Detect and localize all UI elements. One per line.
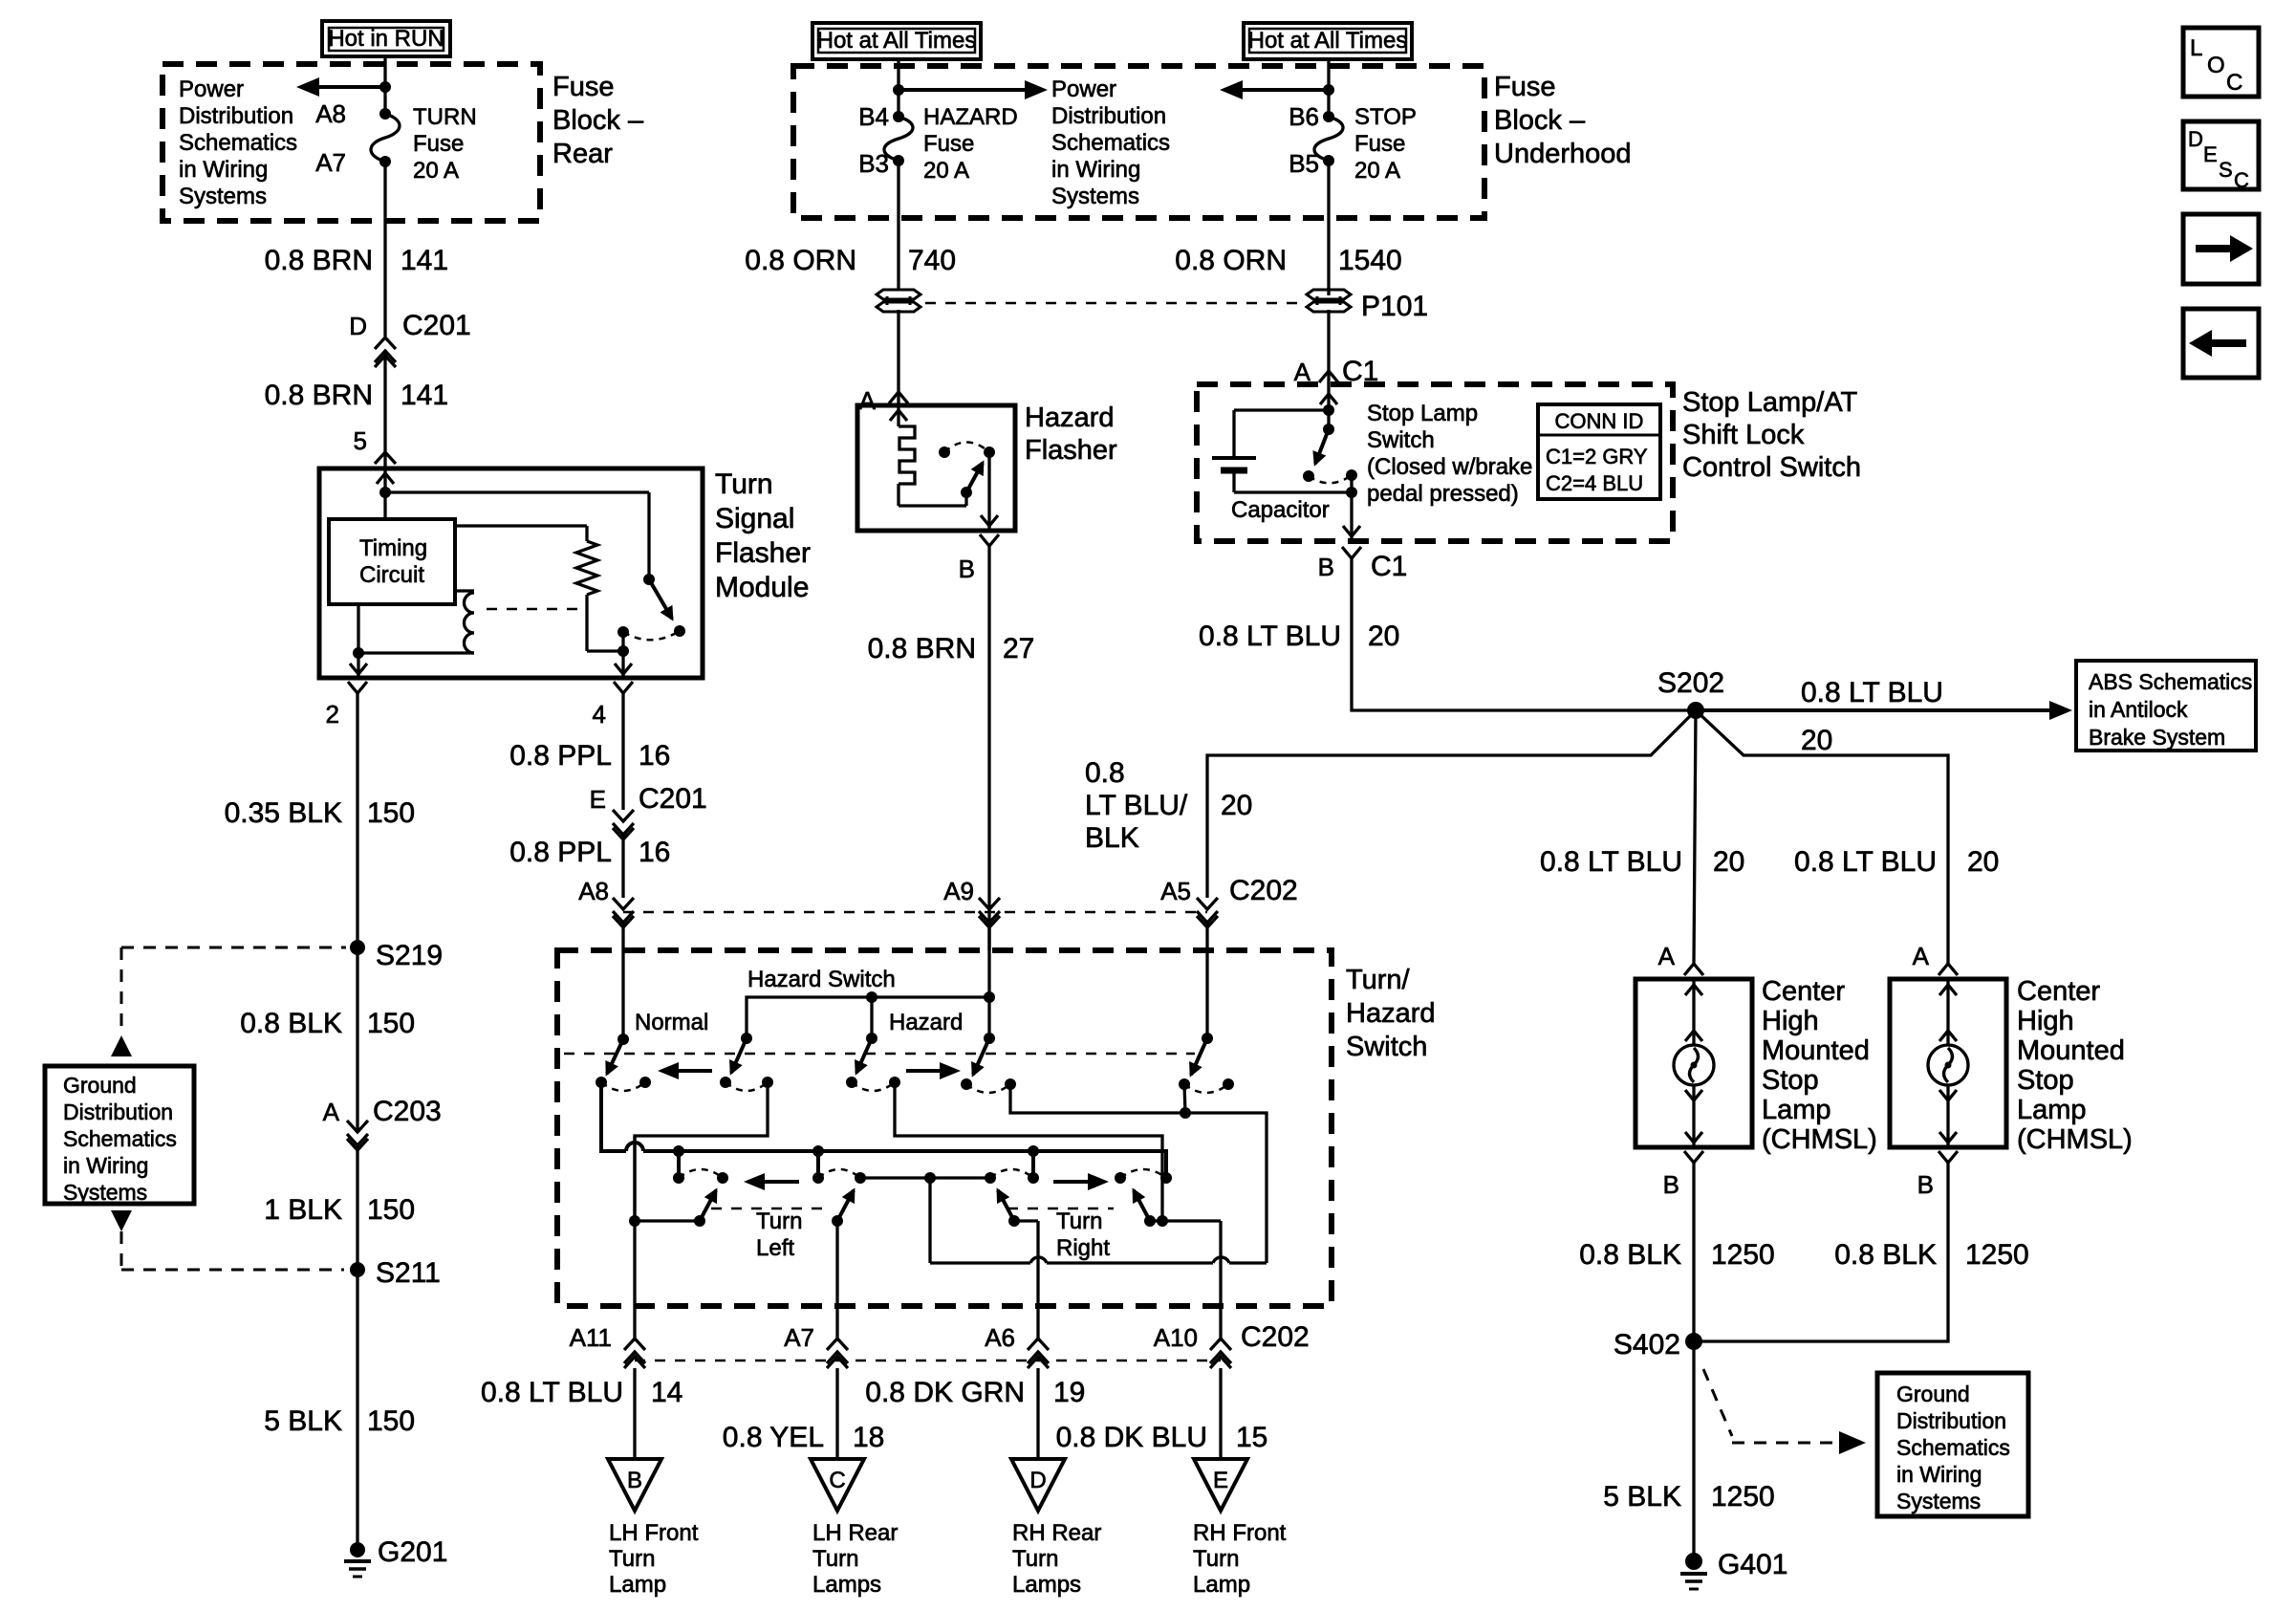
pin B terminal chevron (stop lamp switch) xyxy=(1342,547,1361,558)
svg-text:Capacitor: Capacitor xyxy=(1231,497,1330,523)
svg-text:20 A: 20 A xyxy=(413,158,459,184)
label 0.8 BRN 141 xyxy=(265,245,448,276)
label 0.8 BRN 141 xyxy=(265,380,448,411)
lower switch 1 (turn left) xyxy=(673,1169,728,1227)
svg-text:E: E xyxy=(590,785,606,814)
resistor R internal xyxy=(455,526,623,651)
svg-text:1 BLK: 1 BLK xyxy=(264,1194,342,1226)
svg-text:E: E xyxy=(2203,142,2218,166)
wire 0.8 BRN 141 from fuse to C201 xyxy=(383,162,386,337)
off-page triangle B xyxy=(608,1459,661,1511)
svg-text:B3: B3 xyxy=(858,149,889,178)
node on cross feed xyxy=(1180,1107,1191,1119)
svg-text:in Wiring: in Wiring xyxy=(1896,1462,1982,1487)
pin B terminal chevron right chmsl xyxy=(1939,1151,1958,1163)
svg-text:BLK: BLK xyxy=(1085,822,1139,854)
svg-text:LH Rear: LH Rear xyxy=(812,1520,898,1546)
svg-text:Stop: Stop xyxy=(1762,1065,1819,1096)
svg-text:Stop Lamp: Stop Lamp xyxy=(1367,401,1478,426)
wire lower sw4 pivot to A10 exit xyxy=(1150,1215,1221,1227)
label Turn Left xyxy=(756,1208,802,1261)
upper switch 5 xyxy=(1179,1033,1234,1093)
svg-text:0.8 BLK: 0.8 BLK xyxy=(1579,1239,1681,1271)
wire S202 down to left CHMSL xyxy=(1694,710,1696,964)
svg-text:Distribution: Distribution xyxy=(179,103,293,129)
svg-text:Mounted: Mounted xyxy=(2017,1035,2125,1066)
wire 5 BLK 1250 S402 to G401 xyxy=(1692,1341,1695,1561)
label Fuse Block - Rear xyxy=(552,72,644,169)
label 0.8 DK GRN 19 xyxy=(865,1377,1085,1408)
svg-text:TURN: TURN xyxy=(413,104,477,130)
lamp CHMSL right box xyxy=(1890,979,2006,1147)
svg-text:Schematics: Schematics xyxy=(1896,1435,2010,1460)
svg-text:A11: A11 xyxy=(570,1323,612,1352)
off-page triangle C xyxy=(811,1459,864,1511)
wire 0.8 LT BLU 14 to LH front turn lamp xyxy=(633,1368,636,1459)
svg-text:20: 20 xyxy=(1967,846,1999,878)
arrow right (upper bank) xyxy=(906,1062,961,1079)
pin label A C1 xyxy=(1294,356,1379,387)
label HAZARD Fuse 20 A xyxy=(923,104,1018,184)
label Turn Signal Flasher Module xyxy=(715,468,811,603)
label 0.8 BRN 27 xyxy=(868,633,1035,664)
svg-text:Flasher: Flasher xyxy=(1025,435,1117,466)
wire 0.8 LT BLU 20 stop switch to S202 xyxy=(1352,558,1696,710)
svg-text:141: 141 xyxy=(401,245,448,276)
svg-text:740: 740 xyxy=(908,245,956,276)
svg-text:Turn: Turn xyxy=(812,1546,858,1572)
svg-text:Fuse: Fuse xyxy=(923,131,974,157)
wire arrow to Power Distribution Schematics xyxy=(296,77,385,97)
svg-text:Schematics: Schematics xyxy=(1051,130,1170,156)
label STOP Fuse 20 A xyxy=(1354,104,1417,184)
svg-text:Distribution: Distribution xyxy=(63,1099,173,1124)
wire A6 exit xyxy=(1036,1221,1039,1341)
label Power Distribution Schematics in Wiring Systems xyxy=(179,76,297,209)
lower feed bus xyxy=(643,1151,1166,1178)
svg-text:Center: Center xyxy=(1762,976,1845,1007)
svg-text:16: 16 xyxy=(639,837,670,868)
svg-text:P101: P101 xyxy=(1361,291,1428,322)
svg-text:Systems: Systems xyxy=(179,184,267,209)
wire lower sw1 pivot to A11 column xyxy=(629,1215,700,1227)
svg-text:Hazard: Hazard xyxy=(1346,998,1436,1029)
label 0.8 LT BLU/BLK 20 xyxy=(1085,757,1252,854)
wire 0.8 ORN 1540 stop fuse to P101 xyxy=(1327,161,1330,295)
svg-text:B4: B4 xyxy=(858,102,889,131)
ground G401 xyxy=(1680,1549,1787,1589)
lower switch 3 (turn right) xyxy=(985,1169,1039,1227)
svg-text:18: 18 xyxy=(853,1422,884,1453)
wire 0.8 BLK 1250 left chmsl to S402 xyxy=(1692,1163,1695,1341)
wire A8 into switch box xyxy=(621,923,624,1039)
svg-text:1540: 1540 xyxy=(1338,245,1402,276)
svg-text:STOP: STOP xyxy=(1354,104,1417,130)
ground G201 xyxy=(344,1536,447,1577)
svg-text:150: 150 xyxy=(367,1405,415,1437)
reference box left arrow xyxy=(2183,309,2259,378)
reference box DESC xyxy=(2183,121,2259,192)
fuse HAZARD Fuse 20 A xyxy=(884,111,913,166)
svg-text:Lamp: Lamp xyxy=(2017,1095,2087,1125)
svg-text:Systems: Systems xyxy=(63,1180,147,1205)
label Power Distribution Schematics in Wiring Systems (middle) xyxy=(1051,76,1170,209)
svg-text:Hazard: Hazard xyxy=(889,1010,963,1035)
svg-text:Flasher: Flasher xyxy=(715,537,811,569)
svg-text:20: 20 xyxy=(1713,846,1744,878)
bus stub to lower switch 3 xyxy=(1028,1145,1039,1178)
svg-text:C202: C202 xyxy=(1241,1321,1310,1353)
label 0.8 LT BLU 14 xyxy=(481,1377,682,1408)
wire normal contact to lower feed bus xyxy=(601,1082,626,1151)
svg-text:A7: A7 xyxy=(784,1323,814,1352)
svg-text:(CHMSL): (CHMSL) xyxy=(2017,1124,2133,1155)
svg-text:Mounted: Mounted xyxy=(1762,1035,1870,1066)
connector C201 pin E xyxy=(590,783,707,839)
svg-text:S219: S219 xyxy=(376,940,443,971)
svg-text:0.8 PPL: 0.8 PPL xyxy=(509,740,612,772)
svg-text:Control Switch: Control Switch xyxy=(1682,452,1861,483)
svg-text:LH Front: LH Front xyxy=(609,1520,699,1546)
svg-text:A10: A10 xyxy=(1154,1323,1198,1352)
splice S402 xyxy=(1614,1329,1702,1361)
svg-text:pedal pressed): pedal pressed) xyxy=(1367,481,1519,507)
node hazard feed tap xyxy=(893,84,904,96)
svg-text:Rear: Rear xyxy=(552,139,613,169)
connector C203 pin A xyxy=(323,1096,442,1150)
node stop feed tap xyxy=(1323,84,1334,96)
arrow right (lower bank) xyxy=(1053,1173,1109,1190)
dashed coupling turn left xyxy=(711,1208,831,1210)
svg-text:Ground: Ground xyxy=(1896,1382,1970,1406)
svg-text:Fuse: Fuse xyxy=(1354,131,1405,157)
dashed reference from ground distribution box to S211 xyxy=(111,1210,344,1270)
svg-text:High: High xyxy=(1762,1006,1819,1036)
svg-text:C203: C203 xyxy=(373,1096,442,1127)
svg-text:5 BLK: 5 BLK xyxy=(264,1405,342,1437)
svg-text:0.8 BLK: 0.8 BLK xyxy=(1834,1239,1937,1271)
svg-text:A: A xyxy=(323,1098,340,1126)
label 0.8 PPL 16 xyxy=(509,740,670,772)
capacitor xyxy=(1212,458,1352,492)
svg-text:20 A: 20 A xyxy=(923,158,969,184)
svg-text:A8: A8 xyxy=(578,877,609,905)
label RH Rear Turn Lamps xyxy=(1012,1520,1101,1598)
svg-text:A8: A8 xyxy=(315,99,346,128)
connector C201 pin D xyxy=(349,310,471,367)
svg-text:C: C xyxy=(829,1468,845,1493)
wire 0.8 ORN 740 hazard fuse to P101 xyxy=(897,161,899,295)
inline connector P101 symbol (stop) xyxy=(1307,290,1351,312)
svg-text:14: 14 xyxy=(651,1377,682,1408)
power feed box "Hot in RUN" xyxy=(322,21,450,56)
CONN ID table xyxy=(1538,404,1660,499)
arrow left (lower bank) xyxy=(744,1173,799,1190)
label TURN Fuse 20 A xyxy=(413,104,477,184)
svg-text:Distribution: Distribution xyxy=(1896,1408,2006,1433)
splice S211 xyxy=(350,1257,441,1289)
svg-text:0.35 BLK: 0.35 BLK xyxy=(225,797,342,829)
label Turn/ Hazard Switch xyxy=(1346,965,1436,1062)
svg-text:Block –: Block – xyxy=(552,105,644,136)
svg-text:A9: A9 xyxy=(943,877,974,905)
svg-text:0.8 LT BLU: 0.8 LT BLU xyxy=(1540,846,1682,878)
label 0.8 LT BLU 20 xyxy=(1199,620,1399,652)
svg-text:A5: A5 xyxy=(1160,877,1191,905)
svg-text:A: A xyxy=(859,386,877,415)
label Center High Mounted Stop Lamp (CHMSL) right xyxy=(2017,976,2133,1155)
svg-text:Turn: Turn xyxy=(756,1208,802,1234)
wire A10 exit xyxy=(1219,1221,1222,1341)
label 0.8 DK BLU 15 xyxy=(1056,1422,1268,1453)
fuse block rear dashed box xyxy=(162,64,540,221)
svg-text:Turn/: Turn/ xyxy=(1346,965,1411,995)
inline connector P101 symbol (hazard) xyxy=(877,290,921,312)
pin B terminal chevron (hazard flasher) xyxy=(980,534,999,546)
label Turn Right xyxy=(1056,1208,1110,1261)
svg-text:Underhood: Underhood xyxy=(1494,139,1632,169)
svg-text:C2=4 BLU: C2=4 BLU xyxy=(1546,471,1643,495)
svg-text:Circuit: Circuit xyxy=(359,562,424,588)
svg-text:150: 150 xyxy=(367,1008,415,1039)
svg-text:1250: 1250 xyxy=(1711,1481,1775,1513)
wire upper sw2 right contact to A11 column xyxy=(635,1082,768,1221)
dashed reference from S402 to ground distribution box right xyxy=(1703,1369,1866,1454)
wire 0.8 BRN 141 from C201 to module pin 5 xyxy=(383,351,386,468)
svg-text:Power: Power xyxy=(179,76,244,102)
svg-text:D: D xyxy=(1029,1468,1046,1493)
svg-text:19: 19 xyxy=(1053,1377,1085,1408)
svg-text:141: 141 xyxy=(401,380,448,411)
svg-text:C201: C201 xyxy=(639,783,707,815)
svg-text:4: 4 xyxy=(593,700,606,729)
svg-text:Normal: Normal xyxy=(635,1010,708,1035)
svg-text:Fuse: Fuse xyxy=(413,131,464,157)
svg-text:B: B xyxy=(627,1468,642,1493)
svg-text:Stop Lamp/AT: Stop Lamp/AT xyxy=(1682,387,1858,418)
reference box LOC xyxy=(2183,28,2259,97)
svg-text:Turn: Turn xyxy=(609,1546,655,1572)
stop lamp switch internals xyxy=(1234,384,1337,458)
svg-text:0.8 DK GRN: 0.8 DK GRN xyxy=(865,1377,1025,1408)
svg-text:Power: Power xyxy=(1051,76,1116,102)
svg-text:2: 2 xyxy=(326,700,339,729)
wire lower sw3 pivot to A6 exit xyxy=(1014,1219,1038,1222)
reference box right arrow xyxy=(2183,214,2259,284)
svg-text:L: L xyxy=(2190,35,2202,61)
svg-text:A: A xyxy=(1658,942,1676,970)
dashed coupling line upper bank xyxy=(564,1053,1195,1056)
svg-text:in Wiring: in Wiring xyxy=(179,157,268,183)
label 0.8 BLK 1250 left xyxy=(1579,1239,1775,1271)
splice S219 xyxy=(350,940,443,971)
svg-text:RH Front: RH Front xyxy=(1193,1520,1287,1546)
svg-text:Schematics: Schematics xyxy=(63,1126,177,1151)
svg-text:S: S xyxy=(2219,158,2233,182)
svg-text:(CHMSL): (CHMSL) xyxy=(1762,1124,1877,1155)
wire 0.8 PPL 16 C201 to A8 xyxy=(621,835,624,898)
wire arrow to power distribution (left) xyxy=(1220,80,1329,99)
turn signal flasher module box xyxy=(319,468,703,678)
pin A terminal chevron right chmsl xyxy=(1939,964,1958,975)
svg-text:S211: S211 xyxy=(376,1257,441,1289)
label Stop Lamp Switch (Closed w/brake pedal pressed) xyxy=(1367,401,1532,507)
svg-text:High: High xyxy=(2017,1006,2074,1036)
label RH Front Turn Lamp xyxy=(1193,1520,1287,1598)
svg-text:5 BLK: 5 BLK xyxy=(1603,1481,1681,1513)
label 0.8 ORN 740 xyxy=(745,245,956,276)
svg-text:Lamps: Lamps xyxy=(812,1572,881,1598)
wire hazard feed into fuse block xyxy=(897,59,899,117)
off-page triangle E xyxy=(1194,1459,1247,1511)
svg-text:in Wiring: in Wiring xyxy=(63,1153,148,1178)
wire arrow 0.8 LT BLU 20 to ABS xyxy=(1696,677,2072,756)
svg-text:0.8 BRN: 0.8 BRN xyxy=(868,633,976,664)
connector C202 chevrons at A6 xyxy=(1028,1339,1049,1368)
wire module pin4 internal xyxy=(615,651,632,678)
svg-text:B5: B5 xyxy=(1289,149,1319,178)
svg-text:B: B xyxy=(1663,1170,1679,1199)
connector C202 chevrons at A5 xyxy=(1197,898,1218,927)
stop lamp switch dashed box xyxy=(1197,384,1673,541)
connector C202 chevrons at A8 xyxy=(613,898,634,927)
svg-text:Module: Module xyxy=(715,572,809,603)
bus hop over A11 wire xyxy=(626,1143,643,1151)
svg-text:G401: G401 xyxy=(1718,1549,1787,1580)
dashed coupling coil to resistor xyxy=(487,608,585,611)
pin 2 terminal chevron xyxy=(348,682,367,693)
svg-text:16: 16 xyxy=(639,740,670,772)
wire S202 branch to right CHMSL xyxy=(1696,710,1948,964)
svg-text:0.8 ORN: 0.8 ORN xyxy=(745,245,856,276)
svg-text:D: D xyxy=(349,312,367,340)
label Stop Lamp/AT Shift Lock Control Switch xyxy=(1682,387,1861,483)
svg-text:A7: A7 xyxy=(315,148,346,177)
svg-text:27: 27 xyxy=(1003,633,1034,664)
svg-text:0.8 ORN: 0.8 ORN xyxy=(1175,245,1287,276)
svg-text:C: C xyxy=(2226,70,2242,96)
svg-text:C202: C202 xyxy=(1229,875,1298,906)
power feed box "Hot at All Times" right xyxy=(1244,23,1412,59)
svg-text:20: 20 xyxy=(1801,725,1832,756)
label Fuse Block - Underhood xyxy=(1494,72,1632,169)
pin A terminal chevron left chmsl xyxy=(1684,964,1703,975)
svg-text:B: B xyxy=(959,555,975,583)
svg-text:C1: C1 xyxy=(1371,551,1407,582)
wire A5 into switch box xyxy=(1205,923,1208,1038)
svg-text:0.8 BRN: 0.8 BRN xyxy=(265,245,373,276)
label 0.8 PPL 16 lower xyxy=(509,837,670,868)
node junction at power distribution tap xyxy=(379,81,391,93)
fuse TURN Fuse 20 A xyxy=(371,108,400,167)
wire module pin5 internal xyxy=(377,468,649,579)
label 0.8 BLK 150 xyxy=(240,1008,415,1039)
svg-text:C201: C201 xyxy=(402,310,471,341)
svg-text:Hot at All Times: Hot at All Times xyxy=(817,28,977,54)
label 0.8 ORN 1540 xyxy=(1175,245,1401,276)
svg-text:in Wiring: in Wiring xyxy=(1051,157,1140,183)
svg-text:Lamp: Lamp xyxy=(1762,1095,1831,1125)
svg-text:O: O xyxy=(2207,53,2225,78)
svg-text:20: 20 xyxy=(1221,790,1252,821)
svg-text:S402: S402 xyxy=(1614,1329,1680,1361)
svg-text:Shift Lock: Shift Lock xyxy=(1682,420,1805,450)
label 0.8 LT BLU 20 right chmsl xyxy=(1794,846,1999,878)
label 5 BLK 150 xyxy=(264,1405,415,1437)
ground distribution schematics box left xyxy=(45,1066,194,1205)
wire 0.8 BLK 150 S219 to C203 xyxy=(356,947,358,1132)
wire stop P101 to stop lamp switch pin A xyxy=(1327,310,1330,384)
svg-text:CONN ID: CONN ID xyxy=(1555,409,1644,433)
arrow left (upper bank) xyxy=(658,1062,712,1079)
svg-text:0.8 LT BLU: 0.8 LT BLU xyxy=(1801,677,1943,708)
label LH Front Turn Lamp xyxy=(609,1520,699,1598)
svg-text:Systems: Systems xyxy=(1896,1489,1981,1513)
label 0.8 BLK 1250 right xyxy=(1834,1239,2029,1271)
svg-text:Systems: Systems xyxy=(1051,184,1139,209)
svg-text:Lamp: Lamp xyxy=(609,1572,666,1598)
svg-text:15: 15 xyxy=(1236,1422,1267,1453)
svg-text:Turn: Turn xyxy=(1012,1546,1058,1572)
upper switch 2 xyxy=(720,1033,773,1091)
pin 4 terminal chevron xyxy=(614,682,633,693)
fuse block underhood dashed box xyxy=(793,66,1484,218)
svg-text:150: 150 xyxy=(367,797,415,829)
fuse STOP Fuse 20 A xyxy=(1314,111,1343,166)
svg-text:G201: G201 xyxy=(378,1536,447,1568)
svg-text:A6: A6 xyxy=(985,1323,1015,1352)
splice S202 xyxy=(1657,667,1724,719)
wire S202 branch to A5 C202 xyxy=(1207,710,1696,898)
hazard flasher switch xyxy=(939,443,998,532)
lower switch 4 xyxy=(1115,1169,1172,1227)
svg-text:0.8 BLK: 0.8 BLK xyxy=(240,1008,342,1039)
connector C202 chevrons at A10 xyxy=(1210,1339,1231,1368)
dashed connector row C202 bottom xyxy=(635,1360,1221,1362)
off-page triangle D xyxy=(1011,1459,1065,1511)
wire arrow to power distribution (right) xyxy=(899,80,1048,99)
svg-text:Schematics: Schematics xyxy=(179,130,297,156)
svg-text:Turn: Turn xyxy=(1193,1546,1239,1572)
pin label A5 C202 xyxy=(1160,875,1298,906)
svg-text:RH Rear: RH Rear xyxy=(1012,1520,1101,1546)
wire A7 exit xyxy=(835,1221,838,1341)
ground distribution schematics box right xyxy=(1877,1373,2028,1516)
pin B terminal chevron left chmsl xyxy=(1684,1151,1703,1163)
dashed connector line P101 xyxy=(925,302,1302,305)
wire lower sw2 right contact to lower sw3 left contact xyxy=(860,1172,990,1184)
wire A9 into switch box xyxy=(987,923,990,1038)
label 1 BLK 150 xyxy=(264,1194,415,1226)
label LH Rear Turn Lamps xyxy=(812,1520,898,1598)
svg-text:0.8 LT BLU: 0.8 LT BLU xyxy=(481,1377,623,1408)
wire hazard switch feed rail xyxy=(747,991,995,1038)
dashed coupling turn right xyxy=(1007,1208,1114,1210)
svg-text:Brake System: Brake System xyxy=(2089,725,2225,750)
wire 0.8 BLK 1250 right chmsl to S402 xyxy=(1694,1163,1948,1341)
svg-text:0.8 PPL: 0.8 PPL xyxy=(509,837,612,868)
svg-text:Switch: Switch xyxy=(1367,427,1435,453)
svg-text:Center: Center xyxy=(2017,976,2100,1007)
connector C202 chevrons at A11 xyxy=(624,1339,645,1368)
turn/hazard switch dashed box xyxy=(557,950,1332,1306)
svg-text:1250: 1250 xyxy=(1965,1239,2029,1271)
svg-text:0.8 YEL: 0.8 YEL xyxy=(723,1422,824,1453)
pin label B C1 xyxy=(1318,551,1408,582)
wire A11 exit xyxy=(633,1136,636,1341)
stop lamp switch contact xyxy=(1303,424,1360,541)
wire upper sw4 right contact to cross feed xyxy=(1010,1084,1267,1263)
